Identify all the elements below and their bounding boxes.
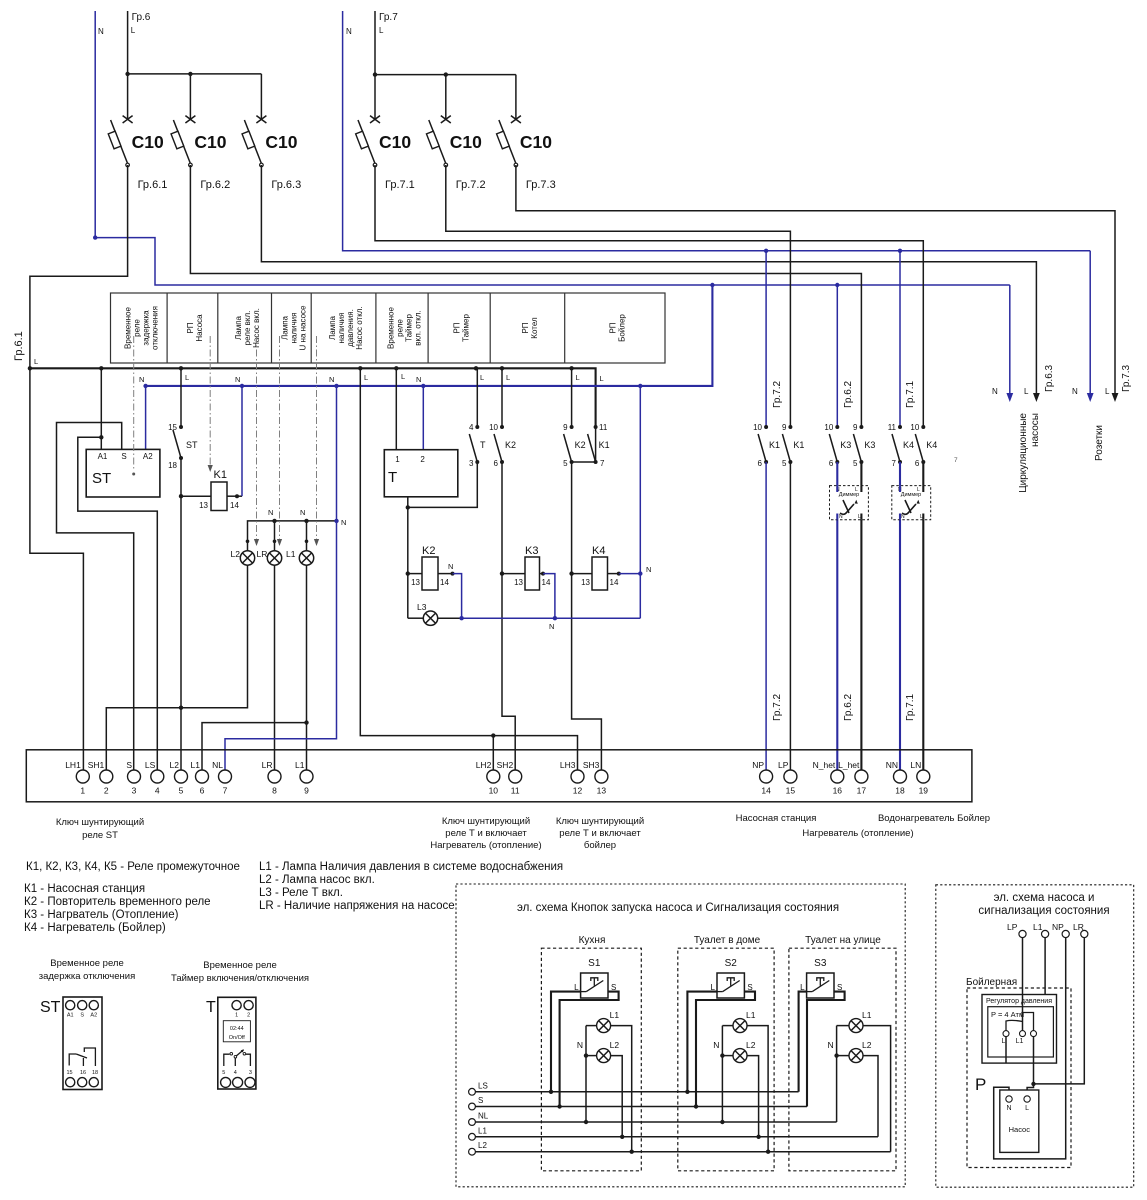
svg-text:U на насосе: U на насосе — [299, 305, 308, 350]
svg-text:16: 16 — [80, 1070, 86, 1076]
node junction above LH2 — [491, 733, 495, 737]
svg-text:L1: L1 — [286, 549, 296, 559]
svg-text:L3 - Реле Т вкл.: L3 - Реле Т вкл. — [259, 887, 343, 899]
svg-text:SH2: SH2 — [497, 760, 514, 770]
wire K4 pin13 stub — [572, 573, 592, 575]
table column separator — [564, 293, 566, 363]
lamp L1 S3 — [849, 1019, 863, 1033]
contact ST pin 15 — [179, 425, 183, 429]
wire Gr.6.2 output to K3 contact — [190, 165, 861, 427]
terminal 1 LH1 — [76, 770, 89, 783]
svg-text:Гр.7: Гр.7 — [379, 12, 398, 23]
wire N vertical S2 — [721, 1026, 723, 1122]
node K4 pin14 — [617, 572, 621, 576]
svg-text:L1: L1 — [478, 1126, 487, 1135]
svg-text:Гр.7.3: Гр.7.3 — [1121, 364, 1132, 392]
svg-text:13: 13 — [199, 501, 208, 510]
wire L feed Gr.6 — [128, 11, 262, 74]
relay coil K4 — [592, 557, 608, 590]
terminal NP — [1062, 930, 1069, 937]
svg-text:Гр.6.2: Гр.6.2 — [843, 693, 854, 721]
svg-text:реле: реле — [396, 319, 405, 337]
svg-text:LR: LR — [262, 760, 273, 770]
svg-text:SH1: SH1 — [88, 760, 105, 770]
wire K4-14 to N (blue) — [619, 573, 641, 575]
wire L through dimmer1 to 17 — [860, 462, 862, 770]
svg-text:LS: LS — [478, 1081, 488, 1090]
svg-text:K1: K1 — [793, 440, 804, 450]
wire A2 to N (blue) — [145, 386, 147, 450]
svg-text:K2: K2 — [422, 545, 435, 557]
svg-text:L1 - Лампа Наличия давления в: L1 - Лампа Наличия давления в системе во… — [259, 861, 563, 873]
svg-text:Туалет в доме: Туалет в доме — [694, 935, 761, 946]
svg-text:N: N — [577, 1040, 583, 1050]
wire N drop to T pin2 (blue) — [422, 386, 424, 450]
wire N feed Gr.6 (blue) — [95, 11, 1010, 285]
wire L1 to regulator — [1044, 938, 1046, 995]
svg-text:насосы: насосы — [1030, 413, 1041, 447]
svg-text:N: N — [646, 565, 651, 574]
wire L to terminal 15 — [789, 462, 791, 770]
svg-text:РП: РП — [609, 322, 618, 333]
node L bus dot x572 — [569, 366, 573, 370]
wire lamp L1 to L2 bus S2 — [747, 1026, 768, 1152]
terminal LS — [469, 1088, 476, 1095]
svg-text:2: 2 — [247, 1013, 250, 1019]
svg-text:6: 6 — [200, 786, 205, 796]
wire S2 S to S bus — [696, 992, 755, 1107]
svg-text:7: 7 — [954, 457, 958, 464]
svg-text:N: N — [827, 1040, 833, 1050]
svg-text:N: N — [346, 27, 352, 36]
svg-text:РП: РП — [453, 322, 462, 333]
table column separator — [375, 293, 377, 363]
table column separator — [427, 293, 429, 363]
svg-text:1: 1 — [395, 455, 400, 464]
wire lamp L1 to L2 bus S1 — [611, 1026, 632, 1152]
svg-text:Гр.7.3: Гр.7.3 — [526, 179, 556, 191]
terminal 19 LN — [917, 770, 930, 783]
wire to K1 pin 13 — [181, 495, 211, 497]
dashed room box Туалет на улице — [789, 948, 896, 1171]
wire 5-7 join — [572, 461, 596, 463]
relay coil K1 — [211, 482, 227, 511]
terminal 13 SH3 — [595, 770, 608, 783]
svg-text:L: L — [1024, 387, 1029, 396]
terminal 17 L_het — [855, 770, 868, 783]
svg-text:L3: L3 — [417, 602, 427, 612]
contact K4 (11-7) blue wire — [898, 425, 902, 429]
svg-text:Гр.6.3: Гр.6.3 — [271, 179, 301, 191]
svg-text:S2: S2 — [725, 958, 738, 969]
svg-text:L: L — [185, 373, 189, 382]
wire K2/K1 contacts down to SH3 — [572, 462, 602, 770]
svg-text:9: 9 — [782, 423, 787, 432]
svg-text:L2: L2 — [746, 1040, 756, 1050]
svg-text:ST: ST — [92, 470, 111, 487]
wire L bus corner to terminal LH1 — [30, 368, 84, 770]
node dot stub LR — [273, 540, 277, 544]
svg-text:L: L — [917, 487, 920, 493]
lamp L2 — [240, 551, 254, 565]
pump L pin — [1024, 1096, 1030, 1102]
svg-text:NL: NL — [478, 1112, 489, 1121]
wire N vertical S3 — [836, 1026, 838, 1122]
node junction T output — [406, 505, 410, 509]
node junction N drop x837 — [835, 283, 839, 287]
ST contact drawing — [69, 1054, 76, 1066]
svg-text:18: 18 — [895, 786, 905, 796]
node K2 pin13 — [406, 571, 410, 575]
terminal 11 SH2 — [509, 770, 522, 783]
linkage dash-dot to ST — [133, 336, 135, 471]
svg-text:N: N — [1072, 387, 1078, 396]
svg-text:5: 5 — [222, 1070, 225, 1076]
svg-text:Гр.7.1: Гр.7.1 — [905, 380, 916, 408]
wire N branch to sockets (blue arrow) — [1089, 251, 1091, 398]
contact K1 (9-5) black wire — [788, 425, 792, 429]
wire S1 L to LS bus — [551, 992, 581, 1092]
node bus dot — [444, 72, 448, 76]
svg-text:9: 9 — [563, 423, 568, 432]
svg-text:L: L — [401, 372, 405, 381]
svg-text:Бойлерная: Бойлерная — [966, 977, 1017, 988]
svg-text:Временное: Временное — [387, 306, 396, 348]
node L bus dot x396 — [394, 366, 398, 370]
svg-text:K4: K4 — [903, 440, 914, 450]
svg-text:ST: ST — [40, 999, 61, 1016]
node junction N riser x712 — [710, 283, 714, 287]
relay coil K3 — [525, 557, 540, 590]
svg-text:Таймер включения/отключения: Таймер включения/отключения — [171, 973, 309, 984]
svg-text:LH2: LH2 — [476, 760, 492, 770]
wire terminal SH1 to ST/K1 line — [106, 708, 247, 770]
wire lamp N sub-bus — [248, 521, 337, 551]
wire contact right down to junction — [1033, 1037, 1035, 1084]
svg-text:N: N — [98, 27, 104, 36]
svg-text:11: 11 — [511, 786, 520, 796]
svg-text:L1: L1 — [191, 760, 201, 770]
svg-text:L: L — [131, 26, 136, 35]
svg-text:K3: K3 — [864, 440, 875, 450]
table frame — [111, 293, 666, 363]
svg-text:N: N — [448, 562, 453, 571]
table column separator — [217, 293, 219, 363]
wire N to terminal 14 (blue) — [765, 462, 767, 770]
relay coil K2 — [422, 557, 438, 590]
dimmer 2 symbol — [902, 504, 916, 514]
svg-text:6: 6 — [829, 459, 834, 468]
wire Gr.7.1 output to K4 contact — [375, 165, 923, 427]
svg-text:реле Т и включает: реле Т и включает — [559, 828, 641, 839]
wire L1 lamp bottom to terminals 6 and 9 — [306, 565, 308, 770]
svg-text:N: N — [268, 508, 273, 517]
svg-text:7: 7 — [600, 459, 605, 468]
svg-text:14: 14 — [610, 578, 619, 587]
svg-text:L1: L1 — [295, 760, 305, 770]
node L bus dot x476 — [474, 366, 478, 370]
svg-text:LP: LP — [778, 760, 789, 770]
svg-text:L1: L1 — [862, 1010, 872, 1020]
wire K2-14 to N bus (blue) — [453, 574, 462, 619]
svg-text:13: 13 — [597, 786, 607, 796]
wire branch to terminal 6 — [202, 723, 307, 770]
wire L feed Gr.7 — [375, 11, 516, 75]
svg-text:Насос: Насос — [1009, 1125, 1031, 1134]
wire stub L1 lamp — [306, 521, 308, 551]
svg-text:S1: S1 — [588, 958, 601, 969]
node bus dot — [188, 72, 192, 76]
node N bus dot x640.3 — [638, 384, 642, 388]
table column separator — [310, 293, 312, 363]
wire N branch to circ-pumps (blue arrow) — [1009, 285, 1011, 398]
svg-text:N: N — [713, 1040, 719, 1050]
lamp L1 — [299, 551, 313, 565]
svg-text:NN: NN — [886, 760, 898, 770]
svg-text:L: L — [576, 373, 580, 382]
svg-text:K1: K1 — [769, 440, 780, 450]
wire branch to LH2 — [492, 736, 494, 770]
svg-text:SH3: SH3 — [583, 760, 600, 770]
svg-text:4: 4 — [234, 1070, 237, 1076]
svg-text:Гр.6.2: Гр.6.2 — [200, 179, 230, 191]
svg-text:L1: L1 — [1016, 1038, 1024, 1045]
wire L bus — [30, 368, 596, 427]
node junction N x900 — [898, 249, 902, 253]
wire LP to contact — [1022, 938, 1024, 1031]
svg-text:наличия: наличия — [290, 313, 299, 344]
terminal 18 NN — [894, 770, 907, 783]
svg-text:6: 6 — [494, 459, 499, 468]
svg-text:NL: NL — [212, 760, 223, 770]
terminal L1 — [1042, 930, 1049, 937]
svg-text:реле: реле — [132, 319, 141, 337]
svg-text:Временное: Временное — [123, 306, 132, 348]
contact K2 (10-6) — [501, 368, 503, 427]
svg-text:К1, К2, К3, К4, К5 - Реле пром: К1, К2, К3, К4, К5 - Реле промежуточное — [26, 861, 240, 873]
table column separator — [489, 293, 491, 363]
svg-text:N: N — [341, 518, 346, 527]
svg-text:L: L — [600, 374, 604, 383]
node L bus dot x502 — [500, 366, 504, 370]
contact K2 (9-5) — [571, 368, 573, 427]
svg-text:S: S — [121, 452, 126, 461]
wire Gr.7.3 output to sockets L — [516, 165, 1115, 398]
svg-text:Нагреватель (отопление): Нагреватель (отопление) — [802, 828, 913, 839]
svg-text:S: S — [80, 1013, 84, 1019]
node junction L1 lamp net — [304, 720, 308, 724]
terminal 15 LP — [784, 770, 797, 783]
svg-text:L2: L2 — [610, 1040, 620, 1050]
svg-text:Нагреватель (отопление): Нагреватель (отопление) — [430, 840, 541, 851]
wire S pin to terminal S — [57, 423, 134, 771]
wire N bus — [146, 285, 713, 386]
svg-text:N: N — [300, 508, 305, 517]
terminal 14 NP — [760, 770, 773, 783]
node dot L/LS — [549, 1090, 553, 1094]
svg-text:3: 3 — [249, 1070, 252, 1076]
svg-text:5: 5 — [782, 459, 787, 468]
ST top circles — [66, 1001, 75, 1010]
svg-text:7: 7 — [223, 786, 228, 796]
svg-text:11: 11 — [599, 423, 608, 432]
svg-text:N: N — [235, 375, 240, 384]
wire T output down to K2 coil — [407, 507, 409, 618]
svg-text:L: L — [855, 487, 858, 493]
dashed room box Туалет в доме — [678, 948, 774, 1171]
svg-text:LR: LR — [1073, 922, 1084, 932]
terminal LR — [1081, 930, 1088, 937]
svg-text:Ключ шунтирующий: Ключ шунтирующий — [556, 816, 644, 827]
wire bus S — [475, 1106, 807, 1108]
wire junction to pump L pin — [1027, 1084, 1033, 1096]
lamp L2 S3 — [849, 1049, 863, 1063]
svg-text:C10: C10 — [132, 132, 164, 152]
circuit breaker 7.1 C10 — [356, 116, 415, 191]
node N bus dot x145.6 — [143, 384, 147, 388]
relay ST box — [86, 449, 160, 497]
svg-text:4: 4 — [155, 786, 160, 796]
svg-text:Лампа: Лампа — [281, 315, 290, 340]
wire T output — [408, 462, 478, 507]
svg-text:C10: C10 — [194, 132, 226, 152]
svg-text:К2 - Повторитель временного ре: К2 - Повторитель временного реле — [24, 896, 211, 908]
wire L drop to LH2 LH3 — [360, 368, 577, 770]
svg-text:7: 7 — [892, 459, 897, 468]
svg-text:K1: K1 — [214, 469, 227, 481]
svg-text:Лампа: Лампа — [234, 315, 243, 340]
svg-text:L: L — [1105, 387, 1110, 396]
node K2 pin14 — [451, 572, 455, 576]
svg-text:C10: C10 — [450, 132, 482, 152]
svg-text:S: S — [126, 760, 132, 770]
svg-text:L_het: L_het — [838, 760, 860, 770]
svg-text:L2: L2 — [862, 1040, 872, 1050]
svg-text:A2: A2 — [143, 452, 153, 461]
circuit breaker 6.3 C10 — [242, 116, 301, 191]
svg-text:L1: L1 — [610, 1010, 620, 1020]
contact ST pin 18 — [179, 456, 183, 460]
svg-text:реле Т и включает: реле Т и включает — [445, 828, 527, 839]
wire S3 L to LS bus — [799, 992, 807, 1092]
node N bus dot x336.5 — [334, 384, 338, 388]
svg-text:LR: LR — [257, 549, 268, 559]
wire N drop boiler (blue) — [899, 251, 901, 427]
wire K2 pin14 stub — [438, 573, 453, 575]
terminal S — [469, 1103, 476, 1110]
terminal L2 — [469, 1148, 476, 1155]
svg-text:14: 14 — [542, 578, 551, 587]
svg-text:Регулятор давления: Регулятор давления — [986, 998, 1052, 1005]
svg-text:A1: A1 — [98, 452, 108, 461]
linkage dash-dot lamp L1 — [316, 336, 318, 540]
node junction A1 branch — [99, 435, 103, 439]
svg-text:отключения: отключения — [150, 306, 159, 350]
node L3/N junction — [459, 616, 463, 620]
svg-text:A2: A2 — [90, 1013, 97, 1019]
terminal 3 S — [128, 770, 141, 783]
svg-text:K3: K3 — [840, 440, 851, 450]
node junction Gr.6 N — [93, 235, 97, 239]
wire L drop to A1 — [100, 368, 102, 449]
lamp L1 S2 — [733, 1019, 747, 1033]
wire K2 pin13 stub — [408, 573, 422, 575]
svg-text:1: 1 — [80, 786, 85, 796]
dashed outer box — [456, 884, 905, 1187]
node N junction x640 — [638, 571, 642, 575]
svg-text:8: 8 — [272, 786, 277, 796]
svg-text:11: 11 — [888, 423, 897, 432]
svg-text:давления.: давления. — [346, 309, 355, 347]
ST bottom circles — [66, 1078, 75, 1087]
node dot L/LS — [685, 1090, 689, 1094]
wire breaker drop 7.2 — [445, 75, 447, 119]
svg-text:K1: K1 — [599, 440, 610, 450]
wire ST contact drop to terminal L2 — [180, 368, 182, 427]
svg-text:2: 2 — [104, 786, 109, 796]
node L bus dot x360 — [358, 366, 362, 370]
terminal NL — [469, 1119, 476, 1126]
dimmer 1 symbol — [840, 504, 854, 514]
wire L through dimmer2 to 19 — [922, 462, 924, 770]
regulator contacts — [1003, 1031, 1009, 1037]
contact hook — [1022, 1013, 1034, 1031]
svg-text:Гр.6.3: Гр.6.3 — [1044, 364, 1055, 392]
svg-text:L2 - Лампа насос вкл.: L2 - Лампа насос вкл. — [259, 874, 375, 886]
wire S1 S to S bus — [560, 992, 619, 1107]
svg-text:S: S — [478, 1096, 483, 1105]
svg-text:РП: РП — [521, 322, 530, 333]
T device box — [218, 997, 256, 1089]
svg-text:сигнализация состояния: сигнализация состояния — [978, 905, 1109, 917]
svg-text:S3: S3 — [814, 958, 827, 969]
svg-text:Гр.7.1: Гр.7.1 — [385, 179, 415, 191]
wire bus L1 — [475, 1136, 878, 1138]
wire N through dimmer1 to 16 (blue) — [836, 462, 838, 770]
wire stubs dimmer1 — [836, 486, 838, 492]
wire lamp L2 to L1 bus S3 — [863, 1056, 878, 1137]
contact K1 (10-6) blue wire — [764, 425, 768, 429]
svg-text:17: 17 — [857, 786, 867, 796]
wire N vertical S1 — [585, 1026, 587, 1122]
pressure regulator box — [982, 995, 1057, 1064]
svg-text:3: 3 — [132, 786, 137, 796]
wire Gr.7.2 output to K1 contact — [446, 165, 791, 427]
terminal 2 SH1 — [100, 770, 113, 783]
lamp L2 S2 — [733, 1049, 747, 1063]
wire bus NL — [475, 1121, 836, 1123]
node junction K1 pin13 — [179, 494, 183, 498]
svg-text:Розетки: Розетки — [1094, 425, 1105, 461]
lamp L3 — [423, 611, 437, 625]
node N bus dot x242 — [240, 384, 244, 388]
wire S3 S to S bus — [807, 992, 845, 1107]
svg-text:LP: LP — [1007, 922, 1018, 932]
svg-text:15: 15 — [66, 1070, 72, 1076]
wire coil N sub-bus (blue) — [462, 617, 641, 619]
linkage dash-dot lamp LR — [279, 336, 281, 540]
svg-text:A1: A1 — [67, 1013, 74, 1019]
wire L2 lamp bottom to ST line — [181, 565, 248, 708]
lamp L1 S1 — [597, 1019, 611, 1033]
svg-text:1: 1 — [235, 1013, 238, 1019]
terminal L1 — [469, 1133, 476, 1140]
svg-text:14: 14 — [230, 501, 239, 510]
svg-text:C10: C10 — [379, 132, 411, 152]
svg-text:L: L — [480, 373, 484, 382]
node junction K3 pin13 — [500, 571, 504, 575]
svg-text:10: 10 — [910, 423, 919, 432]
